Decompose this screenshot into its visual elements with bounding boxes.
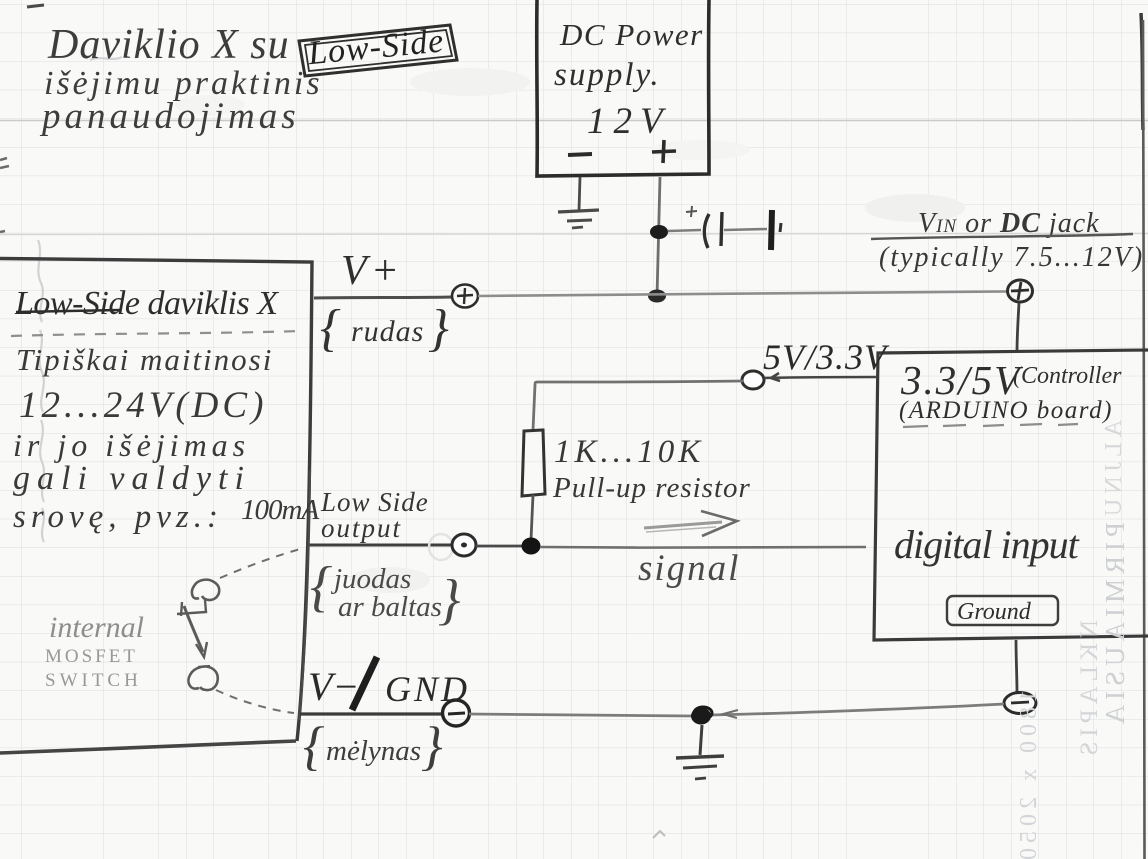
svg-text:1800 x 2050: 1800 x 2050	[1016, 690, 1042, 859]
svg-text:1K...10K: 1K...10K	[554, 434, 704, 470]
svg-text:100mA: 100mA	[241, 494, 319, 526]
svg-text:supply.: supply.	[554, 57, 661, 93]
svg-text:}: }	[438, 569, 460, 631]
terminal - (controller ground)	[1004, 693, 1036, 714]
svg-text:(typically 7.5...12V): (typically 7.5...12V)	[879, 242, 1144, 273]
svg-text:digital input: digital input	[894, 522, 1080, 567]
label Vin or DC jack (typically 7.5...12V)	[871, 208, 1144, 273]
net label 5V/3.3V	[763, 337, 890, 377]
svg-text:rudas: rudas	[351, 315, 424, 348]
capacitor C1 (polarized)	[668, 206, 781, 250]
label {juodas ar baltas}	[310, 556, 460, 631]
resistor R1 pull-up	[522, 430, 545, 540]
svg-text:gali valdyti: gali valdyti	[13, 460, 251, 497]
svg-text:DC Power: DC Power	[559, 17, 704, 52]
svg-text:(ARDUINO board): (ARDUINO board)	[899, 397, 1113, 424]
svg-text:panaudojimas: panaudojimas	[39, 96, 300, 137]
wire V+ rail right segment	[478, 292, 1007, 297]
svg-text:(Controller: (Controller	[1013, 363, 1122, 389]
net label signal	[638, 548, 740, 589]
svg-text:{: {	[320, 300, 341, 357]
wire signal to controller	[540, 546, 866, 549]
wire Vin terminal down to controller box	[1017, 303, 1019, 352]
faint smudges	[175, 68, 965, 593]
svg-text:ar baltas: ar baltas	[338, 591, 442, 623]
wire from PS + terminal down to V+ rail	[657, 177, 660, 297]
svg-text:signal: signal	[638, 548, 740, 589]
dashed divider in sensor box	[11, 331, 300, 336]
svg-text:MOSFET: MOSFET	[45, 646, 138, 667]
label Low Side output	[320, 487, 429, 543]
junction on V+ rail	[648, 290, 666, 303]
svg-text:NKLAPIS: NKLAPIS	[1076, 620, 1103, 761]
svg-text:mėlynas: mėlynas	[326, 735, 421, 767]
svg-text:PIRMIAUSIA: PIRMIAUSIA	[1100, 522, 1130, 730]
label {mėlynas}	[303, 716, 443, 776]
junction signal/pull-up	[522, 538, 541, 555]
terminal + (sensor V+ connector)	[452, 285, 478, 308]
svg-text:ir jo išėjimas: ir jo išėjimas	[13, 427, 250, 463]
terminal output (circle with dot)	[452, 534, 476, 556]
svg-text:GND: GND	[385, 669, 470, 709]
label Low-Side daviklis X	[14, 285, 279, 322]
junction at capacitor tap	[650, 225, 668, 239]
pin + (plus terminal label)	[652, 140, 676, 163]
svg-text:12V: 12V	[587, 101, 671, 142]
svg-text:ALJNU: ALJNU	[1101, 420, 1127, 521]
svg-text:V+: V+	[341, 248, 403, 294]
sensor box Low-Side daviklis X	[0, 259, 312, 754]
dashed leads of MOSFET to sensor pins	[216, 548, 304, 713]
svg-text:Ground: Ground	[957, 599, 1032, 625]
svg-text:Low-Side daviklis X: Low-Side daviklis X	[14, 285, 279, 322]
wire GND sensor to terminal	[300, 712, 443, 715]
net label V- / GND	[308, 657, 470, 710]
label digital input	[894, 522, 1080, 567]
boxed label Low-Side	[299, 22, 457, 76]
terminal + (Vin / DC jack)	[1008, 280, 1033, 302]
net label V+	[341, 248, 403, 294]
terminal - (sensor GND connector)	[443, 700, 470, 726]
wire sensor output to terminal	[308, 544, 453, 547]
ghost erased circle	[429, 534, 453, 560]
small check mark bottom right	[653, 831, 665, 838]
svg-text:output: output	[321, 513, 402, 543]
ground (earth symbol bottom)	[676, 725, 724, 779]
pin label Ground (boxed)	[947, 596, 1058, 625]
svg-text:internal: internal	[49, 611, 144, 644]
svg-text:12...24V(DC): 12...24V(DC)	[19, 385, 267, 426]
label {rudas}	[320, 300, 449, 357]
faint bleed-through text right margin	[1016, 420, 1130, 859]
svg-text:Daviklio X su: Daviklio X su	[47, 22, 290, 68]
arrow (signal direction)	[644, 511, 737, 536]
svg-text:SWITCH: SWITCH	[45, 670, 142, 691]
svg-text:}: }	[428, 300, 449, 357]
ground (power supply)	[558, 177, 599, 228]
wire Ground pin to GND terminal	[1016, 640, 1017, 693]
controller board U1 box	[874, 350, 1148, 640]
wire 5V node to controller box	[764, 373, 876, 381]
pin - (minus terminal label)	[568, 154, 592, 155]
svg-text:{: {	[303, 716, 325, 776]
faint darker rule lines of the paper	[0, 121, 1148, 235]
value label 1K...10K pull-up resistor	[552, 434, 751, 504]
DC power supply PS1 box	[537, 0, 709, 176]
wire GND rail	[469, 704, 1004, 718]
svg-text:5V/3.3V: 5V/3.3V	[763, 337, 890, 377]
node 5V/3.3V (open terminal)	[742, 371, 764, 389]
title: Daviklio X su	[39, 22, 323, 137]
label internal MOSFET SWITCH	[45, 611, 144, 691]
wire 5V node left and down to pull-up resistor	[533, 381, 743, 430]
svg-text:Tipiškai maitinosi: Tipiškai maitinosi	[16, 342, 273, 377]
svg-text:}: }	[421, 716, 443, 776]
junction GND rail / earth	[691, 707, 712, 725]
faint bleed-through squiggles left margin	[38, 57, 122, 542]
svg-text:V−: V−	[308, 664, 359, 709]
label 3.3/5V Controller	[899, 357, 1122, 427]
wire terminal to pull-up junction	[476, 545, 523, 548]
svg-text:Pull-up resistor: Pull-up resistor	[552, 472, 751, 504]
sensor description text	[13, 342, 319, 535]
transistor internal MOSFET switch sketch	[177, 580, 219, 690]
svg-text:srovę, pvz.:: srovę, pvz.:	[13, 499, 223, 535]
wire V+ rail left segment (sensor to terminal)	[314, 297, 452, 298]
svg-text:{: {	[310, 556, 332, 618]
